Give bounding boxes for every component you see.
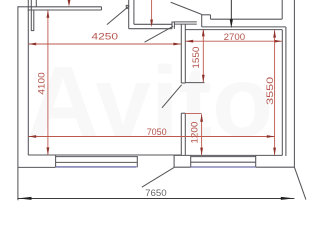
- wall C upper line: [174, 21, 196, 23]
- left bottom outer wall face: [18, 166, 56, 168]
- door jamb B stop nub: [126, 5, 128, 8]
- dim 7050 right arrow: [267, 135, 275, 138]
- bedroom top wall outer line: [202, 26, 286, 28]
- svg-text:2700: 2700: [224, 32, 246, 42]
- wall left outer face: [17, 6, 19, 200]
- dim 7650 right leader diagonal: [294, 167, 306, 199]
- dim 1550 down arrow: [202, 75, 205, 83]
- partition wall segment 2 top cap: [181, 112, 185, 114]
- bedroom window left cap: [190, 156, 192, 168]
- door swing 3: [162, 85, 182, 108]
- dim 4250 line: [28, 43, 181, 45]
- dim 1550 up arrow: [202, 29, 205, 37]
- wall left top cap: [18, 6, 28, 8]
- left window left cap: [55, 155, 57, 167]
- neighbour fragment vertical: [281, 0, 283, 19]
- left window mid line: [56, 161, 138, 163]
- wall B horizontal lower line: [129, 28, 172, 30]
- bottom middle step vertical: [173, 155, 175, 167]
- door swing 2: [145, 26, 174, 42]
- dim 1200 down arrow: [200, 148, 203, 156]
- wall left inner face: [27, 0, 29, 155]
- dim 3550 up arrow: [273, 30, 276, 38]
- wall B left line: [128, 0, 130, 29]
- left room bottom inner wall line: [28, 154, 181, 156]
- dim 2700 left arrow: [185, 40, 193, 43]
- partition wall segment 1 right line: [184, 24, 186, 83]
- dim 2700 line: [185, 40, 282, 42]
- dim 2700 right arrow: [274, 40, 282, 43]
- svg-text:4250: 4250: [92, 32, 119, 42]
- dim 7050 left arrow: [28, 135, 36, 138]
- left window top line: [56, 156, 138, 158]
- dim 7650 left arrow: [18, 197, 32, 200]
- dim 1200 up arrow: [200, 114, 203, 122]
- svg-text:4100: 4100: [37, 72, 47, 94]
- partition wall segment 1 left line: [180, 24, 182, 83]
- building outer right line: [293, 0, 295, 167]
- wall stub outer short line: [35, 0, 37, 7]
- svg-text:Avito: Avito: [27, 46, 273, 158]
- wall stub bottom cap: [31, 30, 34, 32]
- bedroom door head step down: [210, 15, 212, 19]
- dim 7050 line: [28, 136, 274, 138]
- bedroom window frame line (blue): [191, 166, 255, 168]
- dim 4250 right arrow: [173, 43, 181, 46]
- svg-text:3550: 3550: [265, 77, 275, 105]
- svg-text:7650: 7650: [145, 188, 167, 199]
- wall B horizontal upper line: [134, 23, 172, 25]
- bedroom window mid line: [191, 161, 256, 163]
- bedroom right wall inner line: [281, 30, 283, 156]
- dim 4100 down arrow: [47, 147, 50, 155]
- bedroom window top line: [191, 156, 256, 158]
- dim 4100 line: [47, 10, 49, 155]
- black cutoff dim arrow at x231: [230, 0, 232, 20]
- door swing 1: [107, 6, 129, 25]
- svg-text:1550: 1550: [191, 47, 201, 69]
- bedroom top wall inner line: [185, 29, 282, 31]
- dim 3550 line: [274, 30, 276, 155]
- cutoff dim arrow at x151.5: [151, 0, 153, 20]
- bedroom bottom inner wall line: [174, 154, 282, 156]
- door swing 4: [171, 2, 202, 14]
- partition wall segment 2 left line: [180, 113, 182, 155]
- bedroom bottom outer face right part: [256, 166, 295, 168]
- wall C lower line: [174, 23, 196, 25]
- wall A inner face: [28, 9, 102, 11]
- bedroom bottom outer face left part: [174, 166, 191, 168]
- wall B right nub: [172, 22, 174, 29]
- upper wall line to right wall: [211, 18, 283, 20]
- wall B right line: [133, 0, 135, 24]
- wall A end cap: [101, 7, 103, 10]
- wall stub left line (entry partition): [30, 0, 32, 31]
- partition wall segment 1 bottom cap: [181, 82, 185, 84]
- dim 3550 down arrow: [273, 148, 276, 156]
- cutoff dim arrow at x69: [68, 0, 70, 2]
- left window right cap: [136, 156, 138, 167]
- dim 7650 right arrow: [281, 197, 295, 200]
- dim 1550 line: [202, 30, 204, 82]
- wall A top outer face: [28, 6, 102, 8]
- extension tick at segment1 bottom: [185, 82, 204, 84]
- dim 7650 line (black): [18, 197, 295, 199]
- svg-text:7050: 7050: [147, 127, 167, 137]
- dim 7650 left leader diagonal: [142, 167, 175, 187]
- partition wall segment 2 right line: [184, 113, 186, 155]
- red tick at segment2 top: [185, 113, 201, 115]
- dim 4250 left arrow: [28, 43, 36, 46]
- bedroom window right cap: [255, 156, 257, 168]
- bedroom right wall outer line: [285, 27, 287, 156]
- dim 1200 line: [201, 114, 203, 155]
- bedroom door jamb vertical: [201, 14, 203, 27]
- bedroom door head step: [201, 14, 210, 16]
- left window frame line (blue): [56, 166, 137, 168]
- wall stub inner line: [33, 10, 35, 31]
- dim 4100 up arrow: [47, 10, 50, 18]
- svg-text:1200: 1200: [190, 122, 200, 144]
